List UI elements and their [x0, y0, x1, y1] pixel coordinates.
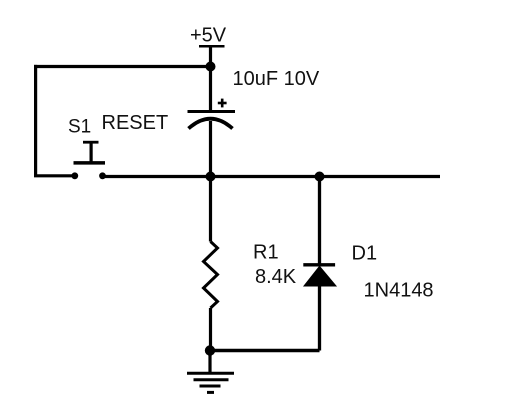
wire: resistor bottom to ground node — [209, 308, 212, 351]
switch S1 left contact dot — [71, 172, 78, 179]
capacitor C1 curved bottom plate — [189, 119, 233, 129]
svg-text:R1: R1 — [253, 241, 279, 263]
switch S1 actuator top bar — [83, 141, 99, 144]
svg-text:D1: D1 — [352, 242, 378, 264]
wire: top horizontal rail to left — [34, 65, 211, 68]
svg-text:+5V: +5V — [190, 25, 227, 47]
node: junction dot at +5V rail — [206, 62, 216, 72]
wire: capacitor bottom to main net — [209, 121, 212, 177]
capacitor C1 top plate — [188, 110, 236, 113]
svg-text:S1: S1 — [68, 116, 91, 137]
resistor R1 zigzag — [204, 242, 218, 309]
wire: main horizontal net — [103, 175, 441, 178]
wire: ground node to ground symbol — [208, 351, 211, 373]
switch S1 right contact dot — [99, 172, 106, 179]
switch S1 actuator stem — [89, 142, 92, 163]
wire: main net down to diode cathode — [318, 177, 321, 264]
wire: +5V bar to capacitor top — [209, 46, 212, 110]
wire: ground net horizontal to diode bottom — [210, 349, 320, 352]
node: junction dot at ground net — [205, 345, 215, 355]
capacitor polarity + sign — [218, 99, 227, 108]
wire: main net down to resistor — [209, 177, 212, 242]
svg-text:10uF 10V: 10uF 10V — [233, 68, 320, 90]
svg-text:1N4148: 1N4148 — [364, 279, 434, 301]
svg-text:8.4K: 8.4K — [255, 266, 297, 288]
diode D1 cathode bar — [303, 263, 335, 266]
+5V terminal bar — [199, 45, 225, 48]
ground symbol — [187, 373, 234, 392]
node: junction dot diode/main net — [315, 172, 325, 182]
wire: left stub to switch contact — [34, 174, 75, 177]
diode D1 triangle (anode, pointing up) — [304, 266, 336, 286]
wire: diode anode down to ground net — [318, 286, 321, 351]
switch S1 movable contact bar — [74, 161, 106, 165]
wire: left vertical drop — [34, 65, 37, 176]
node: junction dot capacitor/main net — [206, 172, 216, 182]
svg-text:RESET: RESET — [102, 112, 169, 134]
